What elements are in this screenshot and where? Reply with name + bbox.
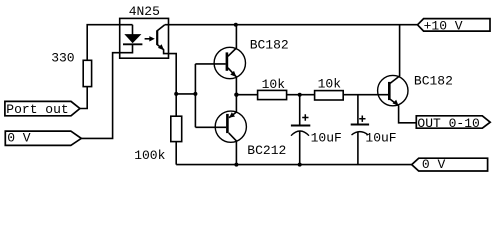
- svg-text:0 V: 0 V: [422, 157, 446, 172]
- svg-text:0 V: 0 V: [7, 130, 31, 145]
- svg-text:330: 330: [51, 50, 74, 65]
- svg-text:10k: 10k: [318, 76, 342, 91]
- svg-text:100k: 100k: [134, 148, 165, 163]
- svg-text:10uF: 10uF: [311, 131, 342, 146]
- svg-text:BC182: BC182: [414, 74, 453, 89]
- svg-text:OUT 0-10: OUT 0-10: [417, 116, 479, 131]
- svg-text:10k: 10k: [262, 77, 286, 92]
- svg-text:BC182: BC182: [250, 37, 289, 52]
- svg-text:Port out: Port out: [6, 102, 68, 117]
- svg-text:+10 V: +10 V: [424, 18, 463, 33]
- svg-text:BC212: BC212: [247, 143, 286, 158]
- svg-text:4N25: 4N25: [129, 4, 160, 19]
- svg-text:10uF: 10uF: [365, 131, 396, 146]
